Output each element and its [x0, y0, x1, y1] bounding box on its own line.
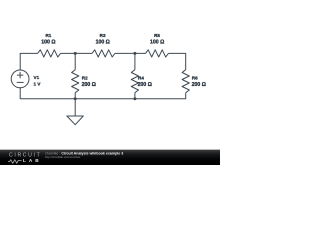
svg-text:R3: R3 [100, 33, 106, 38]
svg-text:R6: R6 [192, 75, 198, 80]
svg-text:100 Ω: 100 Ω [41, 39, 55, 45]
svg-text:1 V: 1 V [34, 81, 42, 86]
svg-text:R1: R1 [45, 33, 51, 38]
svg-text:200 Ω: 200 Ω [192, 82, 206, 88]
svg-text:V1: V1 [34, 75, 40, 80]
svg-text:R5: R5 [154, 33, 160, 38]
svg-text:200 Ω: 200 Ω [82, 82, 96, 88]
svg-text:200 Ω: 200 Ω [138, 82, 152, 88]
svg-text:100 Ω: 100 Ω [150, 39, 164, 45]
svg-text:R4: R4 [138, 75, 144, 80]
svg-text:100 Ω: 100 Ω [96, 39, 110, 45]
svg-text:R2: R2 [82, 75, 88, 80]
